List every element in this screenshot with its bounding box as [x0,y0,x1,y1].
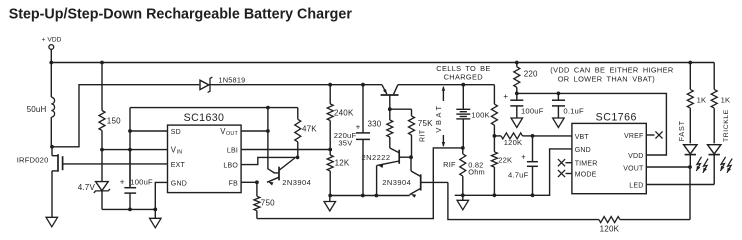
svg-text:100uF: 100uF [130,177,153,186]
inductor L1 50uH [27,63,55,147]
svg-text:35V: 35V [338,139,353,148]
wire VDD supply line [517,93,667,155]
ground SC1630 [150,218,162,228]
svg-text:4.7V: 4.7V [78,183,96,192]
node 240K top junction [328,83,332,87]
svg-text:+: + [521,153,526,162]
IC U1 SC1630 [168,112,242,193]
node 100K bottom junction [493,134,497,138]
resistor R11 100K [471,85,497,136]
svg-text:FAST: FAST [677,120,686,141]
transistor Q4 2N3904 [267,158,311,187]
capacitor C1 100uF [120,150,153,210]
node cells top junction [461,83,465,87]
wire LED pin to TRICKLE LED [646,184,714,186]
svg-text:4.7uF: 4.7uF [508,171,529,180]
wire Q3 base to 120K [448,182,599,219]
svg-text:12K: 12K [335,158,350,167]
resistor R2 150 [99,63,121,150]
node VDD-inductor junction [49,61,53,65]
node FB junction [255,180,259,184]
wire top VDD bus [51,62,714,64]
terminal +VDD [41,37,61,63]
wire LBI line [241,149,330,151]
wire drain node to second bus riser [52,85,199,147]
capacitor C5 0.1uF [552,93,584,118]
svg-text:1K: 1K [721,95,731,104]
node VOUT rail 47K junction [266,106,270,110]
svg-text:100K: 100K [471,110,490,119]
note VDD text [550,65,673,83]
capacitor C4 100uF [503,92,543,118]
LED D4 TRICKLE [708,145,721,185]
wire FB to RIF sense [257,148,463,219]
wire VOUT rail riser [129,108,131,187]
node gnd stub junction [153,208,157,212]
node Q2 base junction [409,155,413,159]
resistor R13 120K mid [494,133,532,147]
svg-text:MODE: MODE [575,172,597,179]
svg-text:2N3904: 2N3904 [282,178,311,187]
svg-text:0.1uF: 0.1uF [563,106,584,115]
svg-text:+: + [120,177,125,186]
svg-text:220: 220 [524,69,538,78]
svg-text:CHARGED: CHARGED [444,73,483,82]
LED D3 FAST [684,145,697,167]
svg-text:SC1630: SC1630 [184,112,225,124]
node VOUT pin junction [266,129,270,133]
node 4.7uF top junction [531,134,535,138]
svg-text:TRICKLE: TRICKLE [723,109,730,142]
wire VOUT pin line [241,130,268,132]
node divider junction [328,148,332,152]
svg-text:+: + [503,92,508,101]
svg-text:SD: SD [171,129,181,136]
resistor R14 220 [514,63,538,94]
svg-text:IRFD020: IRFD020 [17,155,49,164]
svg-text:120K: 120K [504,138,523,147]
svg-text:RIT: RIT [420,129,427,142]
LED D4 emission arrows [720,157,732,173]
node 0.1uF junction [557,92,561,96]
svg-text:VBT: VBT [575,134,590,141]
svg-text:GND: GND [171,180,187,187]
svg-text:LBO: LBO [223,162,238,169]
resistor R15 1K FAST [687,63,706,144]
resistor R3 47K [295,108,317,158]
wire VBT line [533,135,572,137]
node 12K gnd junction [328,194,332,198]
resistor R6 12K [327,150,350,196]
ground RIF [457,195,469,210]
label cells to be charged [436,64,490,82]
transistor Q5 IRFD020 MOSFET [17,147,168,218]
node 4.7uF gnd junction [531,193,535,197]
node 150-VIN junction [100,148,104,152]
svg-text:+ VDD: + VDD [41,37,61,44]
svg-text:150: 150 [107,117,121,126]
wire VOUT pin to FAST LED [646,166,690,168]
svg-text:RIF: RIF [443,160,456,169]
svg-text:IN: IN [177,149,183,155]
resistor R8 75K RIT [390,109,433,157]
capacitor C2 220uF 35V [334,85,370,196]
ground mosfet source [46,217,58,227]
node 220uF gnd junction [361,194,365,198]
node 100uF bottom junction [128,208,132,212]
svg-text:750: 750 [261,198,275,207]
svg-text:47K: 47K [302,124,317,133]
node LBO-47K-collector junction [296,156,300,160]
node inductor-drain junction [50,145,54,149]
IC U2 SC1766 [572,111,646,193]
ground 100uF [511,118,523,128]
wire mid ground bus [329,195,410,197]
wire second bus mid [209,84,382,86]
battery BT1 cells [456,85,470,148]
node VIN-rail junction [128,148,132,152]
node 220uF top junction [361,83,365,87]
wire FB line [241,181,257,183]
svg-text:240K: 240K [334,108,354,117]
wire SC1630 GND route [155,182,167,218]
node FAST LED junction [688,165,692,169]
svg-text:VREF: VREF [624,133,643,140]
transistor Q3 2N3904 [382,157,448,198]
svg-text:LED: LED [629,182,643,189]
svg-text:1N5819: 1N5819 [218,76,245,85]
resistor R16 1K TRICKLE [711,89,730,143]
pin TIMER no-connect [558,159,572,166]
transistor Q2 2N2222 [362,148,412,196]
diode D2 zener 4.7V [78,150,110,210]
ground 0.1uF [553,118,565,128]
node 220-branch junction [515,61,519,65]
svg-text:2N2222: 2N2222 [362,153,391,162]
svg-text:VBAT: VBAT [434,103,443,132]
svg-text:2N3904: 2N3904 [382,178,411,187]
svg-text:100uF: 100uF [521,106,544,115]
node 220 bottom junction [515,92,519,96]
svg-text:120K: 120K [600,225,620,234]
capacitor C3 4.7uF [508,136,538,195]
wire LBO net [241,157,297,164]
diode D1 1N5819 [200,76,245,93]
svg-text:EXT: EXT [171,162,186,169]
ground mid [324,196,336,212]
pin MODE no-connect [558,170,572,177]
node cells-RIF junction [461,146,465,150]
node 150-branch junction [100,61,104,65]
svg-text:VDD: VDD [628,153,643,160]
node Q2 emitter gnd junction [375,194,379,198]
svg-text:22K: 22K [498,156,512,165]
wire VOUT to Q4 base [268,108,279,173]
svg-text:50uH: 50uH [27,105,47,114]
svg-text:OR LOWER THAN VBAT): OR LOWER THAN VBAT) [558,75,655,84]
svg-text:GND: GND [575,147,591,154]
transistor Q1 pass PNP [381,85,399,110]
resistor R7 330 [368,109,393,148]
node 1K-FAST branch junction [688,61,692,65]
svg-text:Ohm: Ohm [468,167,485,176]
wire top bus right corner [713,63,715,90]
resistor R9 120K bottom [599,167,690,234]
resistor R12 22K [491,136,512,195]
svg-text:Step-Up/Step-Down Rechargeable: Step-Up/Step-Down Rechargeable Battery C… [9,7,353,23]
node 22K gnd junction [493,193,497,197]
svg-text:VOUT: VOUT [623,165,644,172]
indicator VBAT arrows [434,86,445,147]
svg-text:(VDD CAN BE EITHER HIGHER: (VDD CAN BE EITHER HIGHER [550,65,673,74]
svg-text:OUT: OUT [226,131,238,137]
node RIF gnd junction [461,193,465,197]
node SD junction [128,129,132,133]
svg-text:FB: FB [229,180,238,187]
wire SD line [130,130,168,132]
pin VREF no-connect [646,131,662,138]
wire VIN line [102,149,168,151]
svg-text:330: 330 [368,120,382,129]
wire left ground bus [102,208,155,210]
svg-text:SC1766: SC1766 [596,111,637,123]
wire VOUT top rail [130,107,298,109]
resistor R5 240K [327,85,354,150]
resistor R10 RIF 0.82 Ohm [443,148,485,195]
wire right ground bus [455,149,572,195]
wire second bus right [398,84,495,86]
svg-text:1K: 1K [697,95,707,104]
node Q1 base junction [388,107,392,111]
resistor R4 750 [254,182,275,218]
svg-text:75K: 75K [418,119,433,128]
svg-text:+: + [356,123,361,132]
svg-text:LBI: LBI [227,148,238,155]
LED D3 emission arrows [696,157,708,173]
svg-text:TIMER: TIMER [575,161,598,168]
